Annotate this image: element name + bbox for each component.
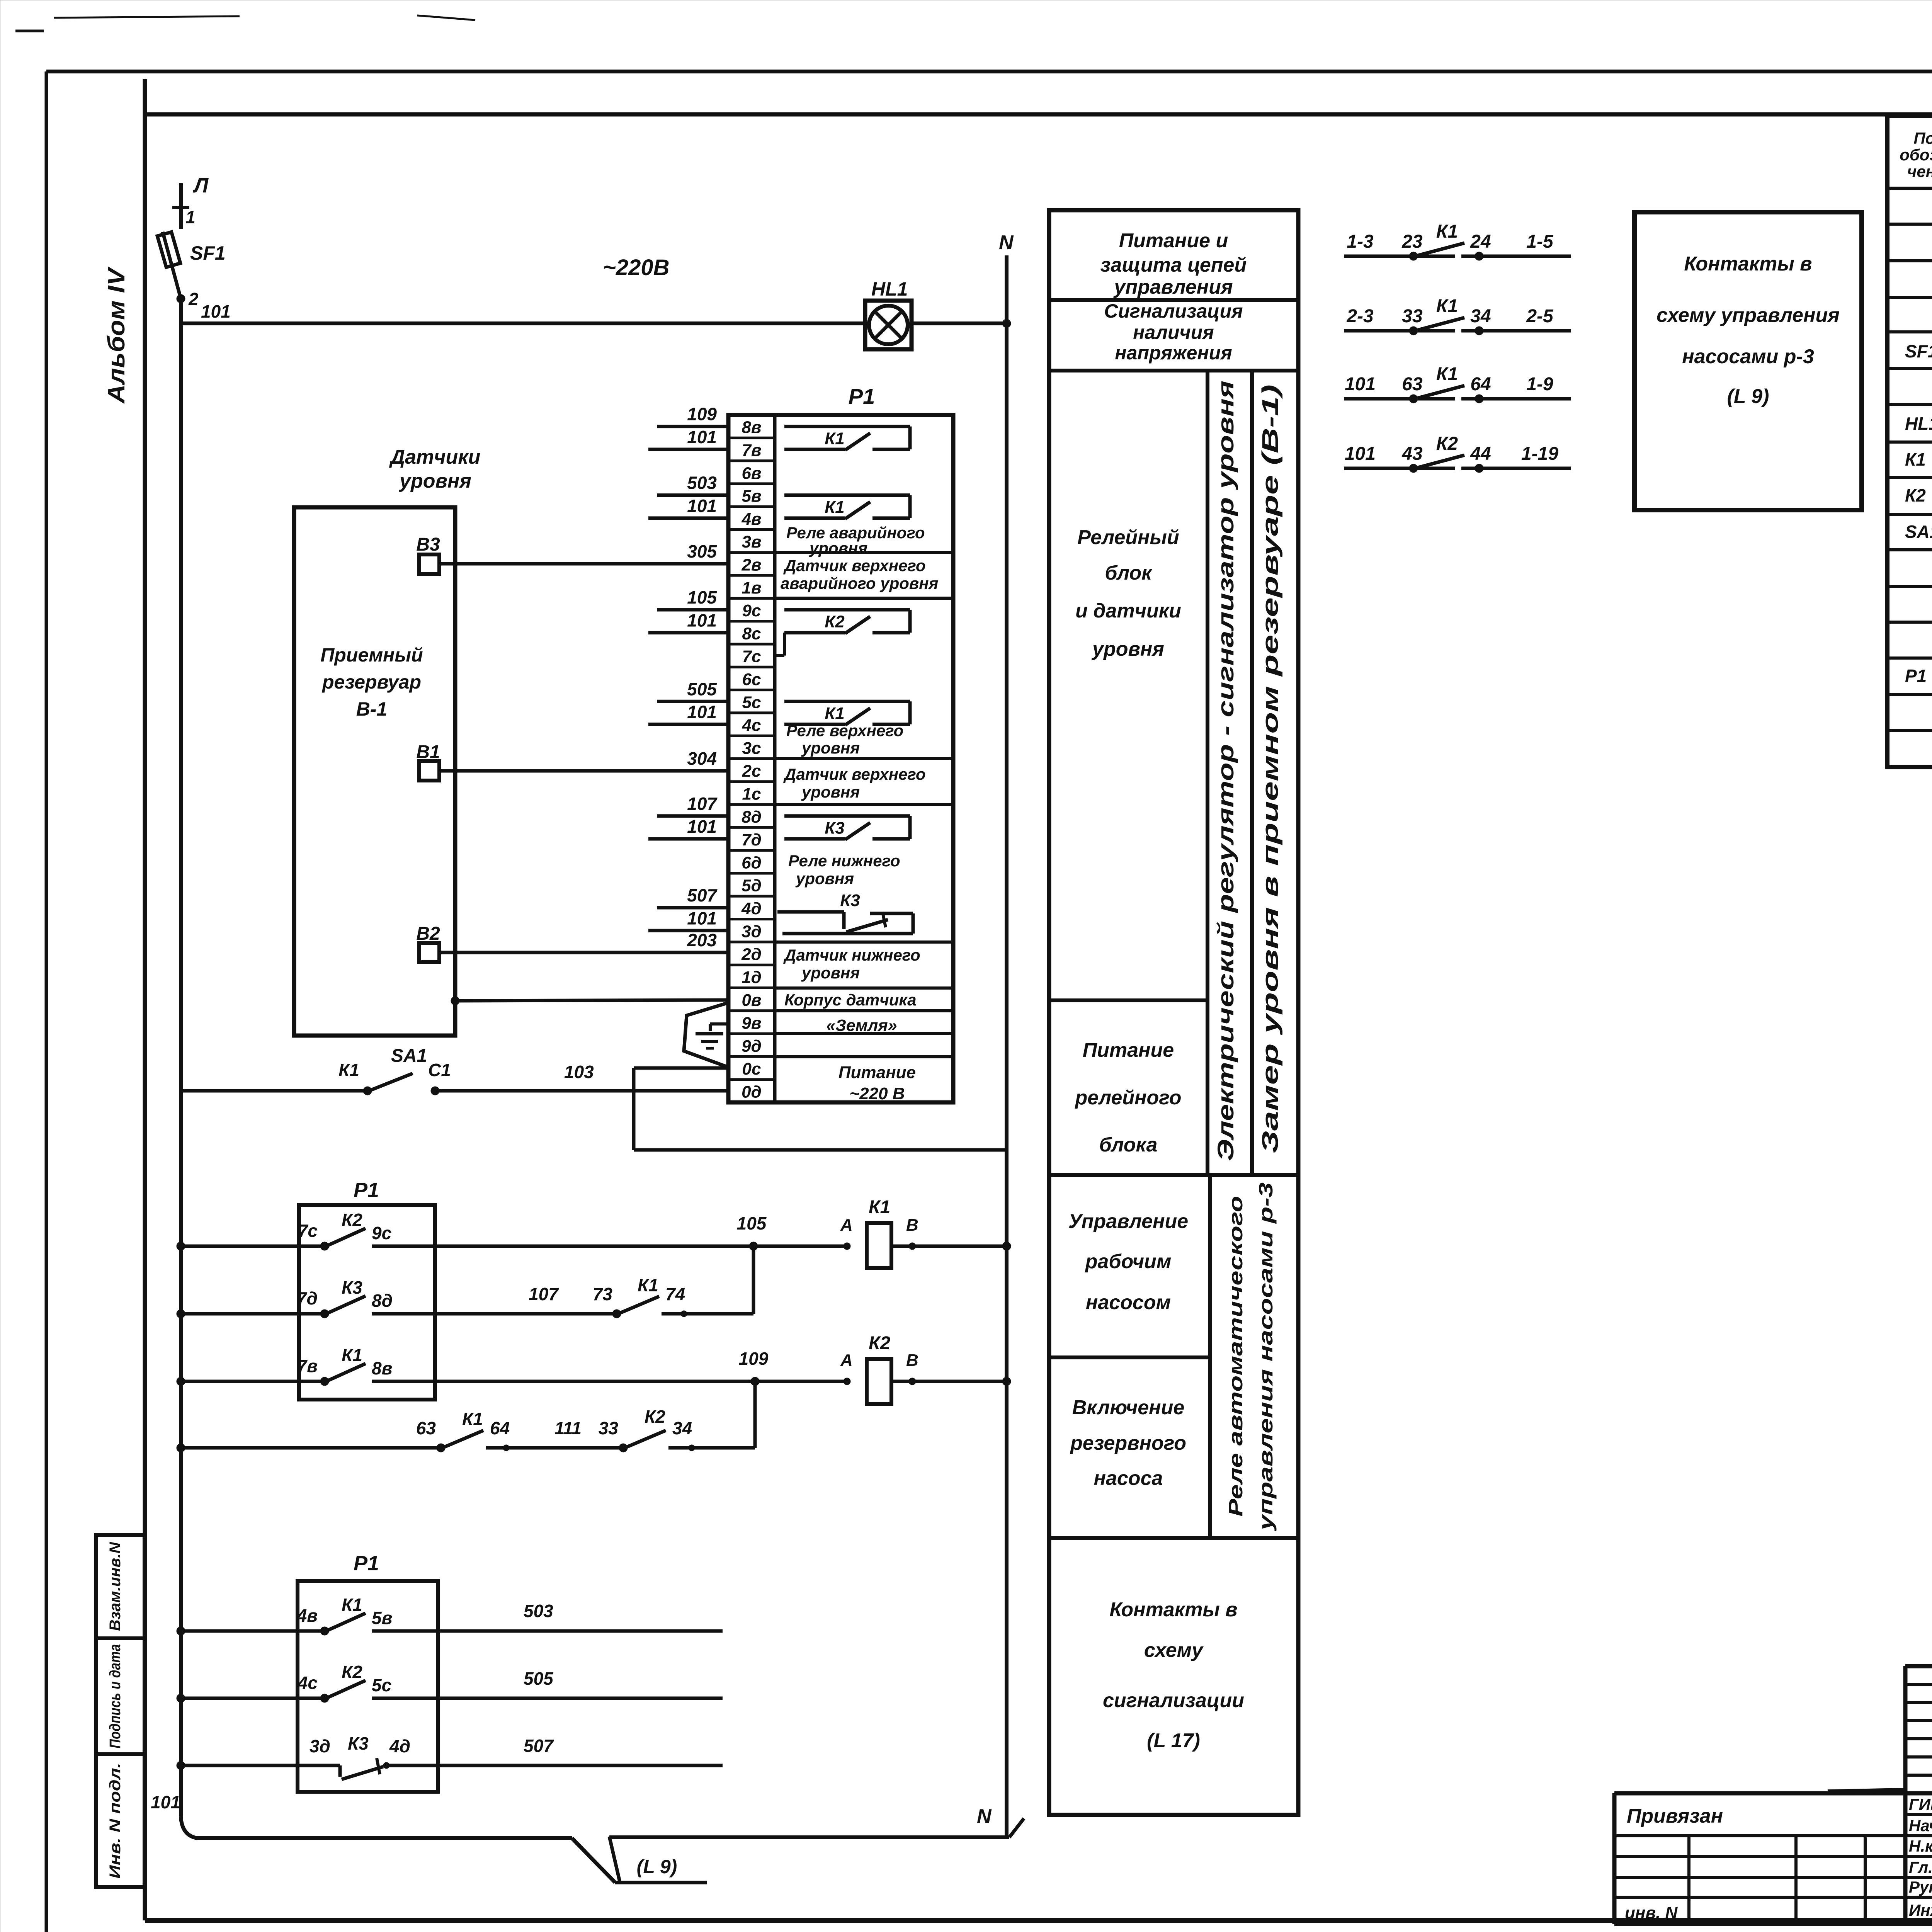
svg-text:63: 63 — [1402, 374, 1423, 395]
svg-text:уровня: уровня — [801, 783, 860, 801]
relay contact К1 terminals 4в-3в — [784, 495, 910, 519]
svg-text:101: 101 — [1345, 374, 1376, 395]
svg-text:6c: 6c — [742, 670, 761, 689]
svg-text:7c: 7c — [742, 647, 761, 666]
table row Р1 — [1905, 666, 1932, 686]
sensor В1 — [416, 742, 440, 781]
svg-text:К1: К1 — [462, 1409, 483, 1429]
svg-text:111: 111 — [554, 1418, 582, 1438]
svg-text:23: 23 — [1401, 231, 1423, 252]
wire 101 to terminal 7д — [648, 816, 728, 839]
wire 101 to terminal 4c — [648, 702, 728, 724]
svg-text:«Земля»: «Земля» — [826, 1016, 897, 1035]
contact К2 P1 7c-9c — [298, 1210, 435, 1250]
svg-text:ГИП: ГИП — [1909, 1795, 1932, 1813]
svg-text:К3: К3 — [348, 1733, 369, 1753]
svg-text:5c: 5c — [372, 1675, 391, 1695]
sensor В3 — [416, 534, 440, 574]
svg-text:105: 105 — [737, 1213, 767, 1233]
contact box P1 upper — [299, 1179, 435, 1400]
svg-text:защита цепей: защита цепей — [1100, 254, 1247, 276]
svg-text:управления: управления — [1113, 276, 1233, 298]
svg-text:5в: 5в — [742, 487, 761, 506]
text Питание и защита цепей управления — [1100, 230, 1247, 298]
svg-text:уровня: уровня — [1091, 638, 1164, 660]
wire to node 105 — [435, 1213, 847, 1250]
lamp HL1 — [865, 278, 912, 349]
svg-text:К3: К3 — [825, 818, 845, 837]
table row SF1 — [1905, 341, 1932, 362]
svg-text:1-9: 1-9 — [1526, 374, 1553, 395]
svg-text:резервного: резервного — [1070, 1432, 1186, 1454]
text Питание 220В — [838, 1063, 916, 1103]
contact К1 P1 7в-8в — [297, 1345, 435, 1386]
contact К3 break 3д-4д — [310, 1733, 438, 1779]
node N bottom — [977, 1805, 1024, 1837]
svg-text:К2: К2 — [825, 612, 845, 631]
svg-text:HL1: HL1 — [871, 278, 908, 300]
svg-text:105: 105 — [687, 587, 717, 607]
parts table — [1887, 116, 1932, 767]
svg-text:Датчик верхнего: Датчик верхнего — [783, 765, 926, 783]
svg-text:1-19: 1-19 — [1521, 444, 1558, 464]
svg-text:101: 101 — [687, 702, 717, 722]
svg-text:Л: Л — [192, 174, 209, 197]
function column frame — [1049, 210, 1298, 1815]
node А row 109 — [840, 1351, 853, 1385]
svg-text:управления насосами р-3: управления насосами р-3 — [1255, 1182, 1277, 1532]
svg-text:7в: 7в — [742, 441, 761, 460]
svg-text:HL1: HL1 — [1905, 413, 1932, 434]
text Датчик нижнего уровня — [783, 946, 920, 982]
svg-text:К1: К1 — [338, 1060, 359, 1080]
svg-text:релейного: релейного — [1074, 1087, 1181, 1109]
svg-text:503: 503 — [524, 1601, 553, 1621]
wire row 4c-5c — [177, 1694, 325, 1702]
wire 101 to terminal 8c — [648, 610, 728, 633]
svg-text:Привязан: Привязан — [1627, 1805, 1723, 1827]
title block — [1614, 1666, 1932, 1924]
net ~220В label — [603, 255, 670, 280]
signature rows — [1909, 1795, 1932, 1920]
svg-text:2: 2 — [188, 289, 199, 309]
wire coil К2 to N — [912, 1377, 1011, 1386]
svg-text:4в: 4в — [741, 510, 761, 529]
svg-text:К2: К2 — [645, 1406, 665, 1427]
node 2 junction — [177, 289, 199, 309]
contact К1 23-24 row 1-3 1-5 — [1344, 221, 1571, 260]
label Датчики уровня — [389, 446, 481, 492]
text Реле аварийного уровня — [786, 524, 925, 557]
svg-text:(L 9): (L 9) — [1727, 385, 1769, 408]
wire 503 — [438, 1601, 723, 1631]
svg-text:101: 101 — [687, 610, 717, 630]
svg-text:4в: 4в — [297, 1605, 318, 1626]
svg-text:SF1: SF1 — [190, 242, 226, 264]
svg-text:6д: 6д — [742, 853, 762, 872]
wire row 63-34 — [177, 1444, 441, 1452]
text Корпус датчика — [784, 991, 917, 1009]
svg-text:К1: К1 — [825, 429, 845, 448]
svg-text:аварийного уровня: аварийного уровня — [781, 574, 938, 592]
svg-text:напряжения: напряжения — [1115, 342, 1232, 364]
contact К1 4в-5в — [297, 1595, 438, 1635]
wire phase bus 101 horizontal — [181, 321, 1007, 325]
svg-text:8д: 8д — [742, 808, 762, 827]
svg-text:уровня: уровня — [398, 470, 471, 492]
svg-text:8c: 8c — [742, 624, 761, 643]
wire riser to 105 — [752, 1246, 755, 1314]
wire 101 to terminal 3д — [648, 908, 728, 930]
svg-text:А: А — [840, 1216, 853, 1235]
svg-text:0д: 0д — [742, 1082, 762, 1101]
label Альбом IV — [103, 266, 130, 404]
wire 507 to terminal 4д — [657, 885, 728, 908]
svg-text:9д: 9д — [742, 1037, 762, 1056]
svg-text:5c: 5c — [742, 693, 761, 712]
wire row 4в-5в — [177, 1627, 325, 1635]
svg-text:Р1: Р1 — [1905, 666, 1927, 686]
svg-text:К1: К1 — [342, 1595, 362, 1615]
contact К1 63-64 — [416, 1409, 623, 1452]
svg-text:В: В — [906, 1351, 918, 1370]
svg-text:резервуар: резервуар — [321, 671, 421, 693]
svg-text:109: 109 — [687, 404, 717, 424]
svg-text:1c: 1c — [742, 784, 761, 803]
svg-text:9c: 9c — [372, 1223, 391, 1243]
wire 505 — [438, 1668, 723, 1698]
svg-text:Датчик нижнего: Датчик нижнего — [783, 946, 920, 964]
svg-text:N: N — [977, 1805, 992, 1828]
text Реле верхнего уровня — [786, 721, 903, 757]
svg-text:сигнализации: сигнализации — [1103, 1689, 1244, 1712]
wire to node 109 — [435, 1349, 847, 1386]
svg-text:101: 101 — [687, 816, 717, 837]
contact К2 4c-5c — [298, 1662, 438, 1702]
svg-text:К1: К1 — [825, 704, 845, 723]
svg-text:Контакты в: Контакты в — [1684, 253, 1812, 275]
wire 305 sensor В3 to terminal 2в — [439, 562, 728, 566]
svg-text:24: 24 — [1470, 231, 1491, 252]
svg-text:3д: 3д — [310, 1736, 330, 1756]
svg-text:К1: К1 — [1436, 221, 1458, 242]
svg-text:Реле автоматического: Реле автоматического — [1225, 1196, 1247, 1517]
svg-text:В3: В3 — [416, 534, 440, 555]
wire 109 to terminal 8в — [657, 404, 728, 427]
svg-text:2-3: 2-3 — [1346, 306, 1374, 327]
wire label 101 bottom — [151, 1792, 180, 1812]
svg-text:4д: 4д — [741, 899, 762, 918]
svg-text:К1: К1 — [1436, 364, 1458, 384]
svg-text:9c: 9c — [742, 601, 761, 620]
svg-text:К1: К1 — [869, 1197, 890, 1218]
svg-text:2в: 2в — [741, 555, 761, 574]
svg-text:3c: 3c — [742, 739, 761, 758]
svg-text:101: 101 — [687, 427, 717, 447]
svg-text:Замер уровня в приемном ре: Замер уровня в приемном резервуаре (В-1) — [1258, 384, 1283, 1153]
stamp Подпись и дата — [96, 1638, 145, 1754]
contact К3 P1 7д-8д — [297, 1277, 435, 1318]
svg-text:7д: 7д — [297, 1288, 318, 1308]
note box Контакты в схему управления насосами р-3 — [1634, 212, 1862, 510]
svg-text:(L 9): (L 9) — [637, 1856, 677, 1878]
text Включение резервного насоса — [1070, 1396, 1186, 1490]
svg-text:4c: 4c — [742, 716, 761, 735]
svg-text:103: 103 — [564, 1062, 594, 1082]
svg-text:1: 1 — [185, 207, 196, 227]
svg-text:К2: К2 — [1905, 485, 1926, 505]
svg-text:уровня: уровня — [795, 869, 854, 888]
svg-text:насосом: насосом — [1086, 1291, 1171, 1314]
svg-text:Контакты в: Контакты в — [1109, 1599, 1237, 1621]
relay contact К2 terminals 9c-8c — [775, 610, 910, 656]
contact К1 73-74 — [593, 1275, 753, 1318]
svg-text:К2: К2 — [342, 1662, 362, 1682]
wire 505 to terminal 5c — [657, 679, 728, 701]
node А — [840, 1216, 853, 1250]
svg-text:схему управления: схему управления — [1656, 304, 1840, 327]
svg-text:2д: 2д — [741, 945, 762, 964]
wire row 7c-9c — [177, 1242, 325, 1250]
relay contact К1 terminals 8в-7в — [784, 427, 910, 450]
svg-text:Поз.: Поз. — [1914, 129, 1932, 147]
wire row 7д-8д — [177, 1310, 325, 1318]
svg-text:0в: 0в — [742, 991, 761, 1010]
svg-text:насосами р-3: насосами р-3 — [1682, 345, 1814, 368]
svg-text:К1: К1 — [1905, 449, 1926, 469]
svg-text:инв. N: инв. N — [1625, 1903, 1678, 1922]
svg-text:305: 305 — [687, 541, 717, 561]
svg-text:8в: 8в — [372, 1358, 392, 1378]
table row К2 — [1905, 485, 1932, 506]
svg-text:6в: 6в — [742, 464, 761, 483]
svg-text:SА1: SА1 — [1905, 522, 1932, 542]
svg-text:С1: С1 — [428, 1060, 451, 1080]
svg-text:Питание и: Питание и — [1119, 230, 1228, 252]
svg-text:SF1: SF1 — [1905, 341, 1932, 361]
wire 105 to terminal 9c — [657, 587, 728, 610]
svg-text:63: 63 — [416, 1418, 436, 1438]
svg-text:33: 33 — [1402, 306, 1423, 327]
svg-text:рабочим: рабочим — [1085, 1250, 1172, 1273]
svg-text:Приемный: Приемный — [320, 644, 423, 666]
svg-text:101: 101 — [201, 301, 231, 321]
svg-text:33: 33 — [599, 1418, 619, 1438]
text Замер уровня в приемном резервуаре В-1 — [1258, 384, 1283, 1153]
svg-text:Альбом IV: Альбом IV — [103, 266, 130, 404]
svg-text:насоса: насоса — [1094, 1467, 1163, 1490]
svg-text:101: 101 — [687, 908, 717, 928]
label инв N — [1625, 1903, 1678, 1922]
svg-text:N: N — [999, 231, 1014, 254]
svg-text:Рук. гр.: Рук. гр. — [1909, 1878, 1932, 1896]
svg-text:Реле нижнего: Реле нижнего — [788, 852, 900, 870]
svg-text:505: 505 — [687, 679, 717, 699]
svg-text:64: 64 — [490, 1418, 510, 1438]
svg-text:К1: К1 — [342, 1345, 362, 1365]
wire label 305 — [687, 541, 717, 561]
svg-text:9в: 9в — [742, 1014, 761, 1032]
wire row 3д-4д — [177, 1761, 340, 1770]
label Привязан — [1627, 1805, 1723, 1827]
text Реле автоматического управления насосами р-3 — [1225, 1182, 1277, 1532]
svg-text:5в: 5в — [372, 1608, 392, 1628]
sensor В2 — [416, 923, 440, 962]
svg-text:34: 34 — [1470, 306, 1491, 327]
text Реле нижнего уровня — [788, 852, 900, 888]
wire N bus vertical — [1002, 255, 1011, 1838]
wire 101 label — [201, 301, 231, 321]
relay coil К1 — [867, 1197, 912, 1268]
svg-text:Р1: Р1 — [354, 1552, 379, 1575]
svg-text:3д: 3д — [742, 922, 762, 941]
svg-text:Р1: Р1 — [849, 384, 875, 408]
wire label 304 — [687, 748, 717, 769]
svg-text:и датчики: и датчики — [1075, 600, 1181, 622]
relay coil К2 — [867, 1333, 912, 1404]
svg-text:107: 107 — [687, 794, 718, 814]
svg-text:Подпись и дата: Подпись и дата — [107, 1644, 124, 1748]
svg-text:43: 43 — [1401, 444, 1423, 464]
svg-text:34: 34 — [672, 1418, 692, 1438]
svg-text:304: 304 — [687, 748, 717, 769]
svg-text:Взам.инв.N: Взам.инв.N — [107, 1542, 124, 1631]
svg-text:Включение: Включение — [1072, 1396, 1185, 1419]
svg-text:В: В — [906, 1216, 918, 1235]
wire 107 to terminal 8д — [657, 794, 728, 816]
svg-text:уровня: уровня — [801, 964, 860, 982]
svg-text:К2: К2 — [1436, 434, 1458, 454]
svg-text:109: 109 — [739, 1349, 769, 1369]
node В row 109 — [906, 1351, 918, 1385]
svg-text:уровня: уровня — [809, 539, 867, 557]
wire terminal 0c to N — [634, 1068, 1007, 1150]
contact box P1 lower — [298, 1552, 438, 1792]
svg-text:схему: схему — [1144, 1639, 1204, 1662]
wire bottom to sheet L9 — [195, 1837, 1009, 1883]
svg-text:Управление: Управление — [1068, 1210, 1188, 1233]
text Питание релейного блока — [1074, 1039, 1181, 1156]
table row HL1 — [1905, 413, 1932, 434]
svg-text:К2: К2 — [342, 1210, 362, 1230]
svg-text:блок: блок — [1105, 562, 1153, 584]
svg-text:наличия: наличия — [1133, 321, 1214, 343]
svg-text:Сигнализация: Сигнализация — [1104, 300, 1243, 322]
svg-text:64: 64 — [1470, 374, 1491, 395]
svg-text:(L 17): (L 17) — [1147, 1730, 1200, 1752]
text Электрический регулятор сигнализатор уровня — [1213, 381, 1238, 1161]
svg-text:К1: К1 — [1436, 296, 1458, 316]
svg-text:~220В: ~220В — [603, 255, 670, 280]
svg-text:Датчики: Датчики — [389, 446, 481, 468]
tank Приемный резервуар В-1 — [294, 507, 455, 1036]
svg-text:4д: 4д — [389, 1736, 410, 1756]
svg-text:Корпус датчика: Корпус датчика — [784, 991, 917, 1009]
svg-text:7д: 7д — [742, 830, 762, 849]
ground — [684, 1003, 728, 1067]
svg-text:7в: 7в — [297, 1356, 318, 1376]
svg-text:107: 107 — [529, 1284, 559, 1304]
svg-text:Н.контр.: Н.контр. — [1909, 1837, 1932, 1855]
svg-text:К3: К3 — [840, 891, 860, 910]
svg-text:5д: 5д — [742, 876, 762, 895]
svg-text:Инженер: Инженер — [1909, 1901, 1932, 1919]
svg-text:Релейный: Релейный — [1077, 526, 1179, 549]
wire row 7в-8в — [177, 1377, 325, 1386]
svg-text:В-1: В-1 — [356, 698, 388, 720]
svg-text:А: А — [840, 1351, 853, 1370]
svg-text:1в: 1в — [742, 578, 761, 597]
table row SA1 — [1905, 522, 1932, 542]
svg-text:1-3: 1-3 — [1347, 231, 1374, 252]
svg-text:44: 44 — [1470, 444, 1491, 464]
terminal block P1 regulator ЭРСУ-4 — [728, 384, 953, 1102]
wire coil К1 to N — [912, 1242, 1011, 1250]
node N top label — [999, 231, 1014, 254]
svg-text:Р1: Р1 — [354, 1179, 379, 1202]
svg-text:Реле верхнего: Реле верхнего — [786, 721, 903, 740]
stamp Инв N подл — [96, 1754, 145, 1887]
wire 107 — [435, 1284, 617, 1314]
svg-text:101: 101 — [687, 496, 717, 516]
svg-text:505: 505 — [524, 1668, 554, 1689]
wire label 203 — [687, 930, 717, 950]
svg-text:503: 503 — [687, 473, 717, 493]
wire 503 to terminal 5в — [657, 473, 728, 495]
svg-text:0c: 0c — [742, 1060, 761, 1078]
text Управление рабочим насосом — [1068, 1210, 1188, 1314]
table header — [1900, 129, 1932, 180]
svg-text:2c: 2c — [742, 762, 761, 781]
svg-text:1д: 1д — [742, 968, 762, 987]
contact К2 33-34 — [599, 1406, 755, 1452]
svg-text:507: 507 — [524, 1736, 554, 1756]
stamp Взам инв N — [96, 1535, 145, 1638]
svg-text:7c: 7c — [298, 1221, 318, 1241]
svg-text:507: 507 — [687, 885, 718, 905]
wire 304 sensor В1 to terminal 2c — [439, 769, 728, 773]
svg-text:101: 101 — [151, 1792, 180, 1812]
wire 507 — [438, 1736, 723, 1765]
label (L9) — [637, 1856, 677, 1878]
wire 101 to terminal 7в — [648, 427, 728, 449]
svg-text:Инв. N подл.: Инв. N подл. — [107, 1763, 124, 1879]
svg-text:8в: 8в — [742, 418, 761, 437]
svg-text:203: 203 — [687, 930, 717, 950]
svg-text:1-5: 1-5 — [1526, 231, 1554, 252]
svg-text:SA1: SA1 — [391, 1046, 427, 1066]
svg-text:~220 В: ~220 В — [849, 1084, 905, 1103]
node В — [906, 1216, 918, 1250]
svg-text:К1: К1 — [825, 498, 845, 517]
text Датчик верхнего уровня — [783, 765, 926, 801]
svg-text:обозна-: обозна- — [1900, 146, 1932, 164]
contact К2 43-44 row 101 1-19 — [1344, 434, 1571, 473]
svg-text:Гл. спец: Гл. спец — [1909, 1858, 1932, 1876]
wire left bus vertical 101 — [181, 299, 197, 1838]
svg-text:74: 74 — [665, 1284, 685, 1304]
svg-text:4c: 4c — [298, 1673, 318, 1693]
wire sensor body to terminal 0в — [451, 997, 728, 1005]
svg-text:Питание: Питание — [1083, 1039, 1174, 1061]
svg-text:Электрический регулятор - си: Электрический регулятор - сигнализатор у… — [1213, 381, 1238, 1161]
svg-text:2-5: 2-5 — [1526, 306, 1554, 327]
node Л phase terminal — [181, 174, 209, 229]
svg-text:уровня: уровня — [801, 739, 860, 757]
text Контакты в схему сигнализации L17 — [1103, 1599, 1244, 1752]
text Релейный блок и датчики уровня — [1075, 526, 1181, 660]
text Земля — [826, 1016, 897, 1035]
